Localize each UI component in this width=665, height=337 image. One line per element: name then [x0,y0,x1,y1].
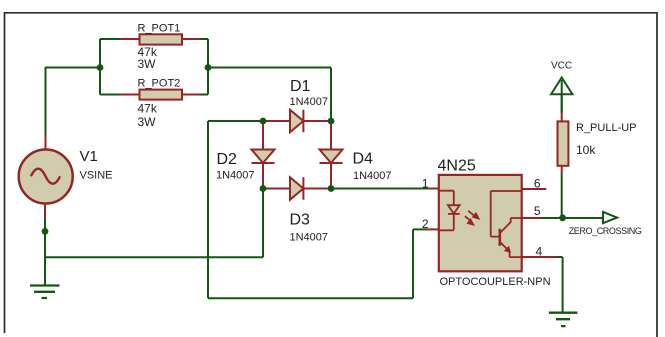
4N25 transistor emitter [501,243,522,258]
svg-text:1N4007: 1N4007 [290,232,329,244]
4N25 pin6 stub [522,188,547,190]
V1 top red pin stub [45,135,47,150]
wire right joiner vertical between R_POT rows [207,39,209,95]
terminal ZERO_CROSSING arrow [603,212,617,223]
svg-text:4: 4 [536,245,543,259]
svg-text:2: 2 [422,217,429,231]
wire V1 bottom to ground [44,218,46,286]
wire R_POT1 left stub [100,38,120,40]
4N25 transistor emitter arrowhead [505,247,511,253]
wire pin2 riser [412,229,414,298]
4N25 LED light arrow lower [465,216,473,225]
4N25 LED light arrow upper [468,211,478,219]
wire V1 negative horizontal [45,256,263,258]
wire VCC stem [561,78,563,113]
wire down into bridge top-right node [330,68,332,122]
wire bottom horizontal to pin2 riser [208,297,413,299]
4N25 internal LED bar [448,213,460,215]
svg-text:VSINE: VSINE [80,170,113,182]
wire R_PULL_UP bottom to pin5 junction [561,173,563,218]
svg-text:D1: D1 [290,78,311,95]
D3 leads [263,188,331,190]
D4 leads [330,121,332,189]
svg-text:1N4007: 1N4007 [353,170,392,182]
4N25 transistor base trace [491,191,522,237]
border frame top [5,12,658,14]
wire pin1 from bridge bottom-right node [331,188,427,190]
4N25 internal LED triangle [448,205,460,213]
R_PULL_UP leads [561,112,563,174]
svg-text:1N4007: 1N4007 [290,96,329,108]
junction node V1 negative [42,228,49,235]
wire R_POT2 right stub [200,94,208,96]
svg-text:V1: V1 [80,148,98,165]
wire pin5 to terminal [542,217,603,219]
4N25 pin4 stub [522,256,557,258]
svg-text:R_POT1: R_POT1 [138,23,181,35]
wire vertical A down left of bridge [207,121,209,298]
diode D3 [290,177,303,199]
svg-text:4N25: 4N25 [438,158,476,175]
wire pin4 corner to ground [556,257,563,312]
resistor R_PULL_UP body [558,121,569,165]
source V1 circle [19,150,73,204]
wire right junction to bridge top right [208,67,331,69]
svg-text:D3: D3 [290,212,311,229]
svg-text:5: 5 [534,204,541,218]
resistor R_POT2 body [140,90,183,100]
svg-text:1: 1 [422,177,429,191]
svg-text:10k: 10k [576,143,596,157]
4N25 transistor collector [501,218,522,233]
border frame right [656,12,658,337]
ground symbol (V1) [30,286,60,299]
svg-text:6: 6 [534,177,541,191]
resistor R_POT1 body [140,34,183,44]
border frame left [4,12,6,333]
wire V1 top to left junction [46,67,101,69]
diode D1 [290,110,303,132]
svg-text:ZERO_CROSSING: ZERO_CROSSING [569,226,642,236]
svg-text:47k: 47k [138,102,158,116]
svg-text:1N4007: 1N4007 [216,170,255,182]
wire bridge top-left node to vertical A [208,120,263,122]
opto-coupler U1 4N25 body [439,175,522,271]
junction node bridge top-right [328,118,335,125]
source V1 sine wave [31,169,60,184]
power flag VCC [551,78,572,95]
4N25 pin1 stub [426,188,439,190]
junction node left R_POT [97,64,104,71]
D1 leads [263,120,331,122]
4N25 transistor base bar [498,229,501,246]
4N25 internal LED cathode trace [439,214,454,230]
svg-text:R_POT2: R_POT2 [138,78,181,90]
wire pin2 horizontal [413,228,427,230]
svg-text:3W: 3W [138,57,157,71]
svg-text:D2: D2 [217,151,238,168]
R_POT1 leads [120,38,201,40]
diode D2 [252,150,275,164]
diode D4 [320,150,343,164]
junction node right R_POT [205,64,212,71]
junction node bridge top-left [260,118,267,125]
D2 leads [262,121,264,189]
wire vertical B up to bridge bottom-left node [262,189,264,258]
4N25 pin2 stub [426,228,439,230]
junction node bridge bottom-right [328,185,335,192]
ground symbol (opto emitter) [549,313,578,326]
svg-text:OPTOCOUPLER-NPN: OPTOCOUPLER-NPN [440,276,551,288]
svg-text:D4: D4 [353,151,374,168]
wire R_POT1 right stub [200,38,208,40]
wire left joiner vertical between R_POT rows [99,39,101,95]
4N25 pin5 stub [522,217,543,219]
R_POT2 leads [120,94,201,96]
V1 bottom red pin stub [44,204,46,219]
junction node pin5 / pull-up [559,214,566,221]
svg-text:VCC: VCC [551,61,572,72]
junction node bridge bottom-left [260,185,267,192]
svg-text:R_PULL-UP: R_PULL-UP [576,122,637,134]
svg-text:3W: 3W [138,115,157,129]
wire R_POT2 left stub [100,94,120,96]
4N25 internal LED anode trace [439,191,454,206]
wire V1 top vertical [45,67,47,136]
